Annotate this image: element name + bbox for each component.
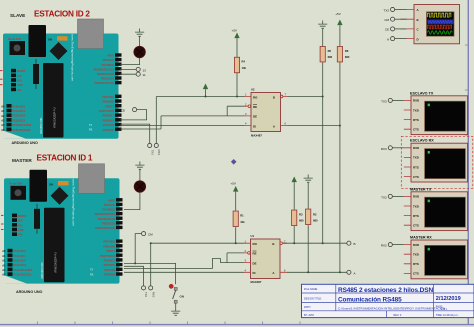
- svg-text:R6: R6: [345, 49, 349, 53]
- svg-text:RTS: RTS: [413, 118, 419, 122]
- svg-text:RS485 2 estaciones 2 hilos.DSN: RS485 2 estaciones 2 hilos.DSN: [338, 287, 433, 294]
- svg-text:CTS: CTS: [413, 224, 419, 228]
- svg-text:TX2: TX2: [383, 8, 389, 12]
- svg-text:+5V: +5V: [231, 182, 236, 186]
- svg-text:RXD: RXD: [413, 243, 419, 247]
- svg-text:A: A: [354, 271, 356, 275]
- svg-text:BY: AVM: BY: AVM: [304, 314, 314, 317]
- wire: [307, 183, 309, 209]
- svg-text:13: 13: [143, 68, 147, 72]
- power +5V (above R6): [335, 12, 342, 30]
- svg-text:DI: DI: [253, 271, 256, 275]
- arduino board 1 (slave): [0, 19, 122, 139]
- wire: [139, 37, 141, 47]
- svg-text:TX2: TX2: [381, 195, 387, 199]
- ground (above LED D1): [135, 29, 144, 37]
- node 13: [120, 67, 146, 72]
- op-amp U2 MAX487: [245, 88, 288, 138]
- svg-text:RE: RE: [253, 105, 257, 109]
- svg-text:CE: CE: [385, 28, 389, 32]
- terminal MASTER TX: [404, 187, 468, 230]
- svg-text:680: 680: [345, 55, 350, 59]
- wire B bus: [288, 63, 323, 244]
- svg-text:ESCLAVO TX: ESCLAVO TX: [410, 91, 434, 95]
- svg-text:DE: DE: [253, 115, 257, 119]
- svg-text:R2: R2: [313, 212, 317, 216]
- wire: [139, 170, 141, 181]
- node RX2 (bottom): [149, 286, 156, 298]
- svg-text:DI: DI: [253, 124, 256, 128]
- wire: [236, 43, 238, 58]
- op-amp U1 MAX487: [244, 234, 287, 284]
- svg-text:TXD: TXD: [413, 108, 419, 112]
- svg-text:U2: U2: [251, 88, 255, 92]
- node B: [347, 241, 356, 246]
- node RX3 (terminal input): [381, 146, 404, 151]
- wire A line to node: [287, 271, 347, 273]
- resistor R1 10k: [233, 211, 245, 227]
- ground (above R2): [304, 175, 313, 183]
- svg-text:+5V: +5V: [335, 12, 340, 16]
- resistor R5 680: [320, 46, 332, 62]
- wire: [124, 192, 140, 209]
- svg-text:TX2: TX2: [144, 292, 148, 298]
- arduino board 2 (master): [1, 164, 123, 284]
- node CM: [135, 232, 153, 264]
- svg-text:ESTACION ID 2: ESTACION ID 2: [34, 10, 90, 19]
- svg-text:ESCLAVO RX: ESCLAVO RX: [410, 139, 434, 143]
- ground (above R5): [318, 21, 327, 29]
- svg-text:TX3: TX3: [381, 99, 387, 103]
- terminal ESCLAVO TX: [404, 91, 468, 134]
- svg-text:DE: DE: [253, 261, 257, 265]
- node CM (scope B): [384, 17, 406, 22]
- node TX2 (terminal input): [381, 194, 404, 199]
- resistor R4 10k: [234, 57, 246, 73]
- svg-text:D: D: [417, 37, 419, 41]
- svg-text:MASTER: MASTER: [12, 158, 32, 163]
- wire: [307, 225, 309, 272]
- terminal ESCLAVO RX: [404, 139, 468, 182]
- wire RE/DE tie: [124, 253, 244, 269]
- svg-text:RX3: RX3: [157, 150, 161, 156]
- svg-text:B: B: [272, 242, 274, 246]
- svg-text:DESIGN TITLE:: DESIGN TITLE:: [304, 298, 322, 301]
- power +5V (master R1): [231, 182, 239, 197]
- svg-text:RXD: RXD: [413, 146, 419, 150]
- svg-text:RX3: RX3: [381, 147, 387, 151]
- svg-text:Comunicación RS485: Comunicación RS485: [338, 296, 402, 303]
- wire B line to node: [283, 242, 347, 244]
- svg-text:TXD: TXD: [413, 253, 419, 257]
- wire: [235, 227, 237, 243]
- resistor R3 680: [292, 210, 304, 226]
- LED D2 (master): [134, 181, 145, 192]
- svg-text:RXD: RXD: [413, 99, 419, 103]
- svg-text:TX3: TX3: [150, 150, 154, 156]
- junction dots (master): [134, 242, 341, 273]
- node 11: [120, 72, 146, 77]
- svg-text:MAX487: MAX487: [251, 134, 262, 138]
- wire RX3 drop: [155, 97, 157, 144]
- svg-text:RX2: RX2: [151, 292, 155, 298]
- svg-text:RTS: RTS: [413, 262, 419, 266]
- svg-text:680: 680: [299, 219, 304, 223]
- svg-text:ON: ON: [180, 295, 185, 299]
- svg-text:CTS: CTS: [413, 272, 419, 276]
- node TX3 (terminal input): [381, 98, 404, 103]
- oscilloscope: [401, 5, 460, 44]
- node A: [347, 270, 356, 275]
- resistor R6 680: [337, 46, 350, 62]
- svg-text:SLAVE: SLAVE: [10, 13, 25, 18]
- wire: [175, 303, 177, 307]
- power +5V (slave R4): [232, 29, 240, 43]
- wire TX3 drop: [120, 124, 150, 143]
- svg-text:B: B: [417, 18, 419, 22]
- svg-text:MAX487: MAX487: [251, 280, 262, 284]
- sheet border right: [465, 0, 469, 325]
- wire RE stub: [227, 106, 244, 116]
- svg-text:A: A: [387, 37, 389, 41]
- svg-text:C:\Users\1 INSTRUMENTACION I: C:\Users\1 INSTRUMENTACION INTELIGENTE\P…: [338, 307, 445, 311]
- svg-text:1 of 1: 1 of 1: [441, 308, 448, 311]
- node RX2 (terminal input): [381, 243, 404, 248]
- svg-text:CE: CE: [121, 108, 125, 112]
- wire: [293, 187, 295, 210]
- wire: [205, 94, 207, 97]
- LED D1 (slave): [134, 46, 145, 57]
- sheet border bottom: [0, 322, 474, 325]
- power +5V (slave RO line): [203, 84, 208, 94]
- svg-text:11: 11: [143, 73, 146, 77]
- terminal MASTER RX: [404, 236, 468, 279]
- wire: [120, 58, 140, 65]
- svg-text:+5V: +5V: [232, 29, 237, 33]
- svg-text:RXD: RXD: [413, 195, 419, 199]
- power +5V (above R3): [292, 177, 297, 187]
- svg-text:ESTACION ID 1: ESTACION ID 1: [37, 153, 93, 162]
- svg-text:680: 680: [313, 219, 318, 223]
- svg-text:ARDUINO UNO: ARDUINO UNO: [12, 141, 39, 145]
- svg-text:10k: 10k: [240, 220, 245, 224]
- svg-text:CTS: CTS: [413, 175, 419, 179]
- selection box (dashed): [401, 136, 473, 188]
- svg-text:R3: R3: [299, 212, 303, 216]
- title block: [302, 284, 474, 317]
- svg-text:CM: CM: [148, 233, 153, 237]
- ground (below switch): [171, 308, 180, 316]
- switch SW1: [169, 284, 184, 303]
- junction dots: [205, 96, 341, 127]
- svg-text:RO: RO: [253, 242, 258, 246]
- svg-text:MASTER RX: MASTER RX: [410, 236, 432, 240]
- svg-text:CTS: CTS: [413, 128, 419, 132]
- svg-text:B: B: [354, 242, 356, 246]
- wire DE net: [120, 116, 245, 129]
- svg-text:U1: U1: [251, 234, 255, 238]
- svg-text:PATH:: PATH:: [304, 306, 311, 309]
- wire A bus: [288, 30, 340, 273]
- svg-text:TXD: TXD: [413, 204, 419, 208]
- svg-text:RO: RO: [253, 95, 258, 99]
- svg-text:R1: R1: [240, 214, 244, 218]
- resistor R2 680: [306, 209, 318, 225]
- svg-text:ARDUINO UNO: ARDUINO UNO: [16, 290, 43, 294]
- ground (above LED D2): [135, 162, 144, 170]
- wire DI net: [120, 125, 245, 127]
- svg-text:RX2: RX2: [381, 244, 387, 248]
- svg-text:MASTER TX: MASTER TX: [410, 187, 432, 191]
- svg-text:TXD: TXD: [413, 156, 419, 160]
- node CE: [120, 108, 147, 120]
- wire: [322, 29, 324, 46]
- svg-text:B: B: [273, 95, 275, 99]
- node RX3: [154, 143, 161, 155]
- svg-text:R4: R4: [242, 60, 246, 64]
- svg-text:RE: RE: [253, 252, 257, 256]
- node TX2 (scope A): [383, 7, 406, 12]
- svg-text:CM: CM: [384, 18, 389, 22]
- svg-text:TIME: 10:48:44 p.m.: TIME: 10:48:44 p.m.: [436, 314, 459, 317]
- svg-text:680: 680: [328, 55, 333, 59]
- wire RO net: [156, 96, 244, 98]
- node TX3: [148, 143, 155, 155]
- svg-text:RTS: RTS: [413, 165, 419, 169]
- wire: [235, 196, 237, 211]
- node TX2 (bottom): [124, 266, 148, 297]
- wire: [236, 73, 238, 97]
- svg-text:R5: R5: [328, 49, 332, 53]
- svg-text:10k: 10k: [242, 66, 247, 70]
- node CE (scope C): [385, 27, 407, 32]
- origin marker: [231, 159, 237, 165]
- node A (scope D): [387, 37, 407, 42]
- wire control net (master): [124, 263, 176, 284]
- svg-text:2/12/2019: 2/12/2019: [436, 296, 461, 302]
- svg-text:REV: 0: REV: 0: [394, 314, 402, 317]
- wire DI net (master): [124, 271, 244, 273]
- svg-text:FILE NAME:: FILE NAME:: [304, 288, 318, 291]
- wire: [293, 226, 295, 243]
- svg-text:RTS: RTS: [413, 214, 419, 218]
- wire RO net (master): [151, 243, 244, 286]
